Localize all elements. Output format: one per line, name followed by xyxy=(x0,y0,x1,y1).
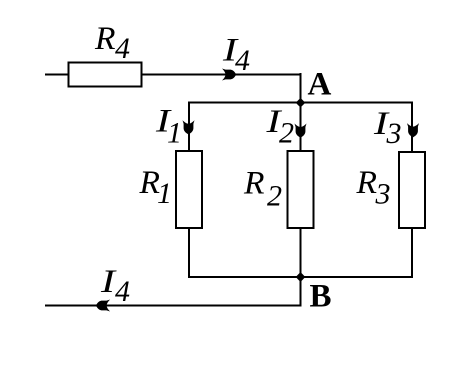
wire: node A horizontal bus xyxy=(189,102,412,104)
label R4 xyxy=(94,21,130,65)
label I1 xyxy=(155,104,182,150)
wire: R4 to corner above node A xyxy=(142,74,302,76)
label I2 xyxy=(265,104,294,150)
wire: branch 3 bottom (R3 to bus B) xyxy=(411,227,413,278)
arrow I2 (current down) xyxy=(295,124,307,138)
label R3 xyxy=(355,165,390,211)
wire: corner down to node A xyxy=(300,73,302,104)
svg-text:4: 4 xyxy=(115,275,130,308)
svg-text:2: 2 xyxy=(279,117,294,150)
label R1 xyxy=(138,165,172,210)
resistor R2 xyxy=(288,151,314,228)
resistor R3 xyxy=(399,152,425,228)
label I4 (top) xyxy=(222,33,250,78)
wire: branch 2 top (node A to R2) xyxy=(300,103,302,153)
wire: bottom output line to the left xyxy=(45,305,302,307)
svg-text:1: 1 xyxy=(157,177,172,210)
wire: branch 1 top (bus to R1) xyxy=(188,102,190,153)
wire: branch 1 bottom (R1 to bus B) xyxy=(188,228,190,278)
svg-text:4: 4 xyxy=(115,32,130,65)
arrow I1 (current down) xyxy=(183,120,195,134)
svg-text:R: R xyxy=(243,166,265,202)
label I3 xyxy=(373,106,402,150)
svg-text:R: R xyxy=(355,165,377,201)
label R2 xyxy=(243,166,282,213)
node A xyxy=(296,98,306,108)
svg-text:1: 1 xyxy=(167,117,182,150)
wire: branch 3 top (bus to R3) xyxy=(411,102,413,154)
svg-text:3: 3 xyxy=(386,117,402,150)
svg-text:B: B xyxy=(310,279,332,315)
wire: node B down to output line xyxy=(300,277,302,307)
svg-text:A: A xyxy=(308,67,332,103)
arrow I3 (current down) xyxy=(407,123,419,137)
svg-text:2: 2 xyxy=(267,180,282,213)
resistor R1 xyxy=(176,151,202,228)
svg-text:R: R xyxy=(94,21,116,57)
resistor R4 xyxy=(69,63,142,87)
svg-text:3: 3 xyxy=(375,178,391,211)
wire: left input stub to R4 xyxy=(45,74,69,76)
svg-text:4: 4 xyxy=(235,44,250,77)
wire: bottom bus through node B xyxy=(188,276,413,278)
arrow I4 (current left, output) xyxy=(96,300,110,312)
arrow I4 (current right) xyxy=(222,69,236,81)
label I4 (bottom) xyxy=(100,264,130,308)
node B xyxy=(296,272,306,282)
wire: branch 2 bottom (R2 to node B) xyxy=(300,228,302,277)
